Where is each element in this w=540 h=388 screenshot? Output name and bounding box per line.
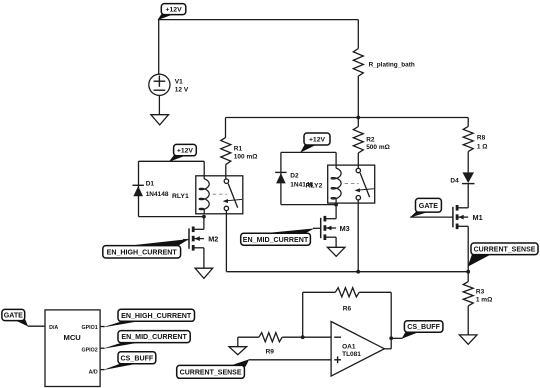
MCU block	[45, 310, 100, 387]
transistor M3	[321, 216, 350, 240]
svg-text:V1: V1	[175, 79, 183, 86]
wire op-amp output	[384, 348, 391, 350]
svg-text:M3: M3	[340, 224, 350, 233]
junction (output / feedback)	[389, 336, 393, 340]
svg-text:D1: D1	[146, 181, 155, 188]
svg-text:R1: R1	[234, 145, 243, 152]
svg-text:GATE: GATE	[4, 312, 23, 320]
wire M1 source to sense bus	[467, 226, 469, 271]
net label EN_HIGH_CURRENT (M2 gate)	[103, 239, 189, 258]
relay RLY1	[172, 176, 243, 214]
net label GATE (M1 gate)	[410, 198, 453, 217]
svg-text:1 Ω: 1 Ω	[477, 143, 488, 150]
net label CS_BUFF (op-amp output)	[402, 321, 443, 339]
junction (coil / D1 / M2 drain)	[202, 215, 206, 219]
svg-text:A/D: A/D	[89, 370, 98, 376]
net label EN_MID_CURRENT (GPIO2)	[100, 331, 190, 349]
svg-text:R8: R8	[477, 134, 486, 141]
svg-text:100 mΩ: 100 mΩ	[234, 154, 258, 161]
net label CURRENT_SENSE (op-amp + input)	[177, 359, 250, 378]
diode D4	[450, 172, 474, 184]
wire to op-amp non-inverting input	[249, 359, 331, 361]
wire D2 anode branch	[280, 152, 282, 204]
wire M3 source to ground	[335, 237, 337, 247]
wire +12V to RLY1 coil	[139, 161, 205, 176]
transistor M1	[453, 205, 483, 229]
wire R8 to D4	[467, 152, 469, 173]
svg-text:GPIO1: GPIO1	[81, 325, 97, 331]
wire +12V to RLY2 coil	[281, 152, 336, 165]
wire D1 return to coil	[139, 216, 204, 218]
svg-text:EN_MID_CURRENT: EN_MID_CURRENT	[243, 236, 309, 244]
resistor R3	[463, 272, 492, 306]
ground (below R3)	[459, 335, 477, 344]
power flag +12V (main rail)	[157, 4, 186, 21]
svg-text:EN_HIGH_CURRENT: EN_HIGH_CURRENT	[121, 312, 192, 320]
wire feedback left leg	[302, 292, 304, 337]
net label EN_HIGH_CURRENT (GPIO1)	[100, 309, 194, 327]
resistor R2	[353, 118, 390, 168]
svg-text:TL081: TL081	[342, 351, 361, 358]
diode D2	[275, 172, 313, 188]
wire feedback right leg	[390, 292, 392, 349]
net label EN_MID_CURRENT (M3 gate)	[241, 228, 321, 245]
resistor R1	[221, 118, 258, 180]
relay RLY2	[306, 165, 375, 203]
svg-text:M1: M1	[473, 213, 483, 222]
svg-text:RLY2: RLY2	[306, 183, 323, 190]
svg-text:MCU: MCU	[64, 333, 82, 342]
svg-text:R2: R2	[366, 136, 375, 143]
svg-text:+12V: +12V	[166, 7, 183, 14]
transistor M2	[189, 227, 218, 251]
svg-text:D2: D2	[290, 172, 299, 179]
svg-text:D4: D4	[450, 178, 459, 185]
diode D1	[133, 181, 169, 198]
svg-text:R3: R3	[476, 288, 485, 295]
svg-text:EN_HIGH_CURRENT: EN_HIGH_CURRENT	[107, 248, 178, 256]
wire distribution bus	[226, 117, 469, 119]
resistor R6	[303, 288, 392, 313]
voltage source V1	[149, 74, 189, 95]
wire D1 anode branch	[138, 161, 140, 216]
junction (RLY2 output / bus)	[356, 270, 360, 274]
svg-text:CURRENT_SENSE: CURRENT_SENSE	[180, 369, 242, 376]
power flag +12V (RLY2 coil)	[300, 133, 330, 153]
net label CS_BUFF (A/D)	[100, 352, 156, 371]
wire D4 to M1 drain	[467, 184, 469, 208]
power flag +12V (RLY1 coil)	[169, 144, 197, 162]
wire R3 to ground	[467, 306, 469, 335]
wire RLY2 contact to sense bus	[357, 200, 359, 272]
svg-text:GPIO2: GPIO2	[81, 347, 97, 353]
wire +12V rail to R_plating_bath	[159, 19, 359, 21]
svg-text:CS_BUFF: CS_BUFF	[121, 354, 154, 362]
ground (below M3)	[327, 247, 345, 256]
wire V1 to ground	[158, 95, 160, 114]
ground (below V1)	[151, 115, 169, 125]
svg-text:1 mΩ: 1 mΩ	[476, 297, 492, 304]
svg-text:D/A: D/A	[49, 325, 58, 331]
svg-text:CS_BUFF: CS_BUFF	[407, 323, 440, 331]
svg-text:+12V: +12V	[177, 148, 194, 155]
wire RLY1 contact to sense bus	[226, 210, 468, 271]
junction (coil / D2 / M3 drain)	[334, 203, 338, 207]
wire RLY2 coil to M3 drain	[335, 205, 337, 219]
net label CURRENT_SENSE (sense node)	[468, 243, 538, 267]
svg-text:12 V: 12 V	[175, 87, 189, 94]
svg-text:GATE: GATE	[419, 202, 438, 210]
wire R_plating_bath to bus	[357, 76, 359, 117]
svg-text:RLY1: RLY1	[172, 193, 189, 200]
svg-text:EN_MID_CURRENT: EN_MID_CURRENT	[121, 333, 187, 341]
svg-text:R6: R6	[343, 305, 352, 312]
ground (R9 input reference)	[229, 337, 247, 355]
net label GATE (MCU D/A)	[2, 309, 45, 326]
wire output tap to CS_BUFF	[391, 337, 402, 339]
svg-text:+12V: +12V	[309, 136, 326, 143]
junction (inverting input / feedback)	[301, 335, 305, 339]
svg-text:M2: M2	[208, 235, 218, 244]
svg-text:OA1: OA1	[342, 343, 356, 350]
wire +12V to V1	[158, 19, 160, 74]
ground (below M2)	[195, 268, 213, 278]
svg-text:R9: R9	[266, 349, 275, 356]
svg-text:R_plating_bath: R_plating_bath	[369, 61, 415, 68]
wire RLY1 coil to M2 drain	[203, 217, 205, 230]
junction (bus / R2)	[356, 116, 360, 120]
wire D2 return to coil	[281, 204, 336, 206]
resistor R_plating_bath	[353, 20, 415, 77]
op-amp OA1	[331, 322, 384, 377]
svg-text:500 mΩ: 500 mΩ	[366, 144, 390, 151]
resistor R8	[463, 118, 487, 152]
resistor R9	[238, 333, 331, 356]
wire M2 source to ground	[203, 248, 205, 268]
svg-text:CURRENT_SENSE: CURRENT_SENSE	[474, 246, 536, 253]
svg-text:1N4148: 1N4148	[146, 191, 169, 198]
junction (sense bus / R3)	[466, 270, 470, 274]
